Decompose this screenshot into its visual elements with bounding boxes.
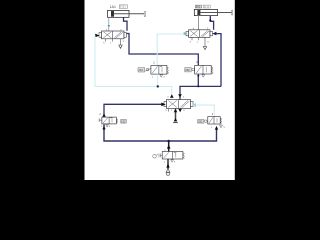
supply rail (navy): start valve port1, along bottom, up to 2S1 port1 (104, 124, 217, 141)
start valve 1S2 3/2 pushbutton (99, 117, 118, 124)
limit valve 2S2 label box (185, 68, 191, 73)
limit valve 2S1 label box (198, 120, 204, 124)
wire junction down to 0V1 port2 (168, 141, 170, 152)
cylinder 2A1 label box (195, 5, 202, 9)
2V1 port stubs and exhaust (190, 28, 209, 49)
flow arrow up on start-valve port2 riser (102, 113, 105, 116)
flow blob on 2A1 rod-side wire (209, 18, 212, 21)
svg-text:1A1: 1A1 (110, 5, 116, 9)
flow arrow up into 2S1 port1 (215, 126, 218, 130)
junction navy rail at 2S2 (197, 85, 199, 87)
junction supply rail to 0V1 (167, 140, 170, 143)
wire 2A1 cap-side to 2V1 port4 (exhausted) (198, 16, 200, 30)
svg-text:2S1: 2S1 (198, 121, 203, 124)
valve 2V1 5/2 double-pilot (186, 30, 213, 38)
junction 2S2 port1 (197, 75, 199, 77)
wire 1S1 port1 down to pilot rail (cyan) (157, 74, 159, 86)
pilot arrow into 2V1 left (cyan) (184, 32, 188, 35)
compressed air source (166, 169, 170, 175)
wire 1V1 right pilot to 2S2 port2 (navy) (127, 34, 199, 66)
limit valve 2S1 3/2 roller (205, 113, 226, 129)
svg-text:2A1: 2A1 (196, 6, 201, 9)
junction on cyan rail at 1S1 (157, 85, 159, 87)
cylinder 1A1 distance ruler (119, 5, 127, 8)
svg-text:2S2: 2S2 (185, 69, 190, 72)
wire 2V1 right pilot down to signal rail (navy) (216, 34, 221, 87)
wire 1A1 cap-side to 1V1 port4 (exhausted) (108, 17, 111, 31)
white canvas of schematic (85, 0, 236, 180)
limit valve 2S2 3/2 roller (192, 61, 213, 77)
pilot arrow into 0V2 right (cyan) (192, 103, 196, 107)
limit valve 1S1 3/2 roller (145, 61, 168, 78)
flow arrow up on 0V1 port2 riser (167, 145, 171, 149)
navy rail (right mid) (180, 86, 221, 99)
wire 2S1 port2 to 0V2 right pilot (cyan) (192, 105, 214, 117)
svg-text:1S2: 1S2 (121, 121, 126, 124)
pilot arrow into 2V1 right (navy) (212, 32, 216, 36)
wire 1A1 rod-side to 1V1 port2 (pressurized) (124, 17, 128, 31)
port labels 4 2 above central valve (167, 97, 185, 99)
wire 1S1 port2 to 2V1 left pilot (cyan) (157, 34, 184, 66)
pilot rail cyan (left) (95, 36, 172, 100)
svg-text:1S1: 1S1 (139, 69, 144, 72)
start valve exhaust and labels (101, 125, 111, 129)
wire 2S2 port1 down to navy rail (197, 74, 199, 86)
wire 2A1 rod-side to 2V1 port2 (pressurized) (210, 16, 213, 30)
wire 0V1 port1 to air source (167, 159, 169, 169)
valve 1V1 5/2 double-pilot (99, 31, 127, 39)
left black bar (0, 0, 85, 180)
0V2 bottom ports: stub 5, supply 1 with plug, exhaust 3 (166, 109, 186, 123)
pilot arrow into 1V1 left (14) (95, 34, 99, 38)
flow arrow up on source riser (166, 163, 169, 168)
supply valve 0V1 3/2 lever (153, 150, 185, 159)
flow arrow down into central valve port2 (178, 94, 182, 98)
start valve 1S2 label box (121, 119, 127, 123)
right black bar (235, 0, 320, 180)
cylinder 2A1 distance ruler (203, 5, 210, 8)
pilot arrow into 0V2 left (black) (161, 103, 166, 107)
flow arrow up on start valve port1 riser (102, 126, 105, 130)
cylinder 2A1 (194, 9, 232, 15)
0V1 exhaust and labels (164, 160, 176, 164)
wire start-valve port2 to 0V2 left pilot (navy) (104, 104, 162, 117)
flow arrow up into central valve port4 (170, 94, 174, 97)
limit valve 1S1 label box (138, 68, 145, 73)
1V1 port stubs and exhaust (103, 29, 124, 48)
cylinder 1A1 label text (110, 5, 116, 9)
central valve 0V2 5/2 double-pilot (164, 100, 193, 109)
cylinder 1A1 (108, 10, 146, 17)
